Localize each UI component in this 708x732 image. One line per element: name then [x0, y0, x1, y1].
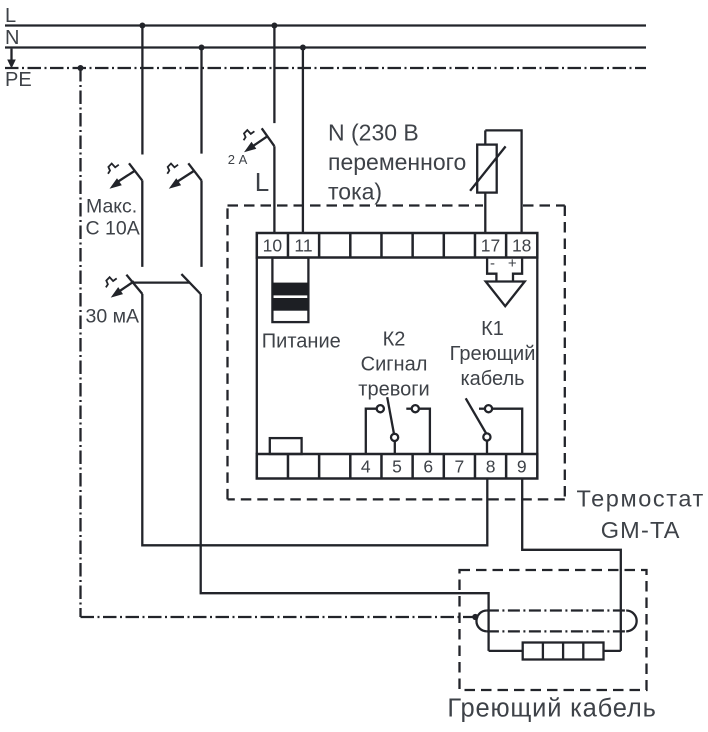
svg-text:Греющий кабель: Греющий кабель [447, 695, 656, 723]
node on N for QF2 [199, 45, 205, 51]
RCD mechanical link bar [134, 281, 190, 283]
net PE bus line [5, 67, 646, 69]
heating element block [523, 643, 604, 660]
svg-text:17: 17 [481, 235, 500, 255]
svg-text:Термостат: Термостат [577, 486, 705, 512]
N-to-PE ground arrow [7, 49, 16, 69]
relay body right wall [536, 258, 538, 455]
svg-text:L: L [255, 167, 269, 197]
svg-text:К1: К1 [481, 318, 504, 340]
wire QF1 to RCD pole 1 [141, 180, 143, 267]
svg-text:11: 11 [294, 235, 312, 255]
svg-text:N: N [5, 27, 19, 49]
svg-text:Питание: Питание [262, 331, 341, 353]
PE wire to heating cable screen [81, 616, 473, 618]
heating cable dashed enclosure [460, 570, 647, 690]
thermostat dashed enclosure [228, 206, 565, 500]
temperature sensor RT [470, 145, 506, 193]
svg-text:N (230 В: N (230 В [328, 120, 419, 146]
svg-text:переменного: переменного [328, 149, 466, 175]
breaker FU1 2A [244, 128, 275, 152]
svg-text:-: - [490, 255, 495, 272]
svg-text:5: 5 [392, 456, 402, 476]
net L bus line [5, 24, 646, 26]
top terminal row [257, 233, 538, 258]
wire L down to breaker QF1 [141, 26, 143, 155]
internal jumper box [270, 438, 302, 454]
RCD 30mA pole 1 blade [126, 275, 142, 294]
node on N for terminal 11 [300, 45, 306, 51]
svg-text:7: 7 [455, 456, 465, 476]
terminal pin numbers top row [263, 235, 532, 255]
wire L down to 2A breaker [273, 26, 275, 124]
svg-text:6: 6 [423, 456, 433, 476]
bottom terminal row [257, 454, 538, 479]
svg-text:Сигнал: Сигнал [361, 353, 428, 375]
PE wire down left side [79, 68, 81, 617]
svg-text:2 А: 2 А [228, 152, 248, 167]
breaker QF1 (Макс. С 10А, pole 1) [108, 163, 142, 189]
heating cable screen (stadium) [476, 611, 636, 632]
svg-text:10: 10 [263, 235, 283, 255]
wire cable left end to element [489, 650, 523, 652]
svg-text:К2: К2 [383, 328, 406, 350]
relay contact K2 (terminals 4-5-6) [366, 397, 430, 454]
svg-text:GM-TA: GM-TA [601, 517, 681, 543]
K1 output connector (- +) [486, 258, 525, 307]
wire terminal 9 to heating cable (L side) [522, 479, 621, 651]
svg-text:30 мА: 30 мА [86, 306, 140, 328]
svg-text:+: + [508, 255, 517, 272]
node on L for 2A breaker [271, 23, 277, 29]
terminal pin numbers bottom row [361, 456, 527, 476]
breaker QF2 (Макс. С 10А, pole 2) [167, 163, 201, 189]
wire N to terminal 11 [302, 48, 304, 234]
relay contact K1 (terminals 8-9) [466, 398, 523, 454]
sensor wire to terminal 18 [485, 130, 521, 233]
wire 2A breaker to terminal 10 [273, 146, 275, 233]
relay body left wall [256, 258, 258, 455]
RCD trip arrow and release symbol [106, 277, 134, 297]
svg-text:L: L [5, 5, 16, 27]
RCD 30mA pole 2 blade [181, 274, 200, 294]
svg-text:PE: PE [5, 69, 32, 91]
wire N down to breaker QF2 [200, 48, 202, 154]
sensor wire to terminal 17 [484, 193, 486, 233]
svg-text:тревоги: тревоги [358, 378, 429, 400]
svg-text:4: 4 [361, 456, 371, 476]
svg-text:18: 18 [512, 235, 531, 255]
svg-text:Макс.: Макс. [86, 196, 137, 218]
power supply block (Питание) [272, 258, 308, 323]
svg-text:кабель: кабель [460, 368, 524, 390]
svg-text:тока): тока) [328, 179, 382, 205]
svg-text:Греющий: Греющий [450, 343, 536, 365]
wire element to cable right end [604, 650, 621, 652]
net N bus line [5, 46, 646, 48]
wire QF2 to RCD pole 2 [200, 180, 202, 267]
wire RCD pole2 down to heating cable (N side) [201, 294, 489, 651]
svg-text:С 10А: С 10А [86, 218, 140, 240]
svg-text:9: 9 [517, 456, 527, 476]
node on PE [78, 65, 84, 71]
wire RCD pole1 down to K1 return [142, 294, 487, 545]
svg-text:8: 8 [486, 456, 496, 476]
node PE to cable screen [472, 614, 478, 620]
node on L for QF1 [139, 23, 145, 29]
